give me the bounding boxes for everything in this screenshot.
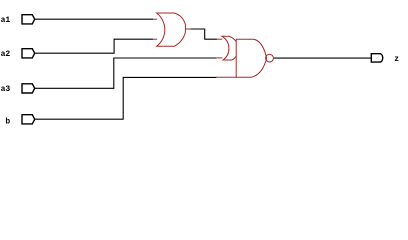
wire OR1 output to OR2 input 1 (190, 29, 217, 39)
OR1 output stub (185, 28, 190, 30)
or-gate OR1 (157, 13, 186, 46)
input port a2 (22, 49, 35, 58)
input port b (22, 115, 35, 124)
OR1 input stub 1 (153, 18, 157, 20)
input port a3 (22, 84, 35, 93)
wire a3 to OR2 input 2 (35, 58, 218, 88)
svg-text:z: z (394, 55, 399, 64)
output port z (371, 54, 382, 62)
svg-text:a2: a2 (1, 50, 11, 59)
wire NAND output to port z (274, 57, 372, 59)
OR1 input stub 2 (153, 38, 157, 40)
OR2 input stub 2 (216, 57, 222, 59)
wire a2 to OR1 input 2 (35, 39, 154, 53)
svg-text:b: b (5, 117, 10, 126)
svg-text:a3: a3 (1, 85, 11, 94)
wire b to NAND input 2 (35, 77, 217, 119)
NAND input lead (from b wire along bottom) (216, 76, 236, 78)
input port a1 (22, 15, 35, 24)
svg-text:a1: a1 (1, 16, 11, 25)
or-gate OR2 (222, 36, 240, 60)
OR2 input stub 1 (216, 38, 222, 40)
wire a1 to OR1 input 1 (35, 18, 154, 20)
nand-gate U3 output bubble (266, 54, 274, 62)
nand-gate U3 body (white fill hides OR2 tip) (236, 39, 266, 77)
